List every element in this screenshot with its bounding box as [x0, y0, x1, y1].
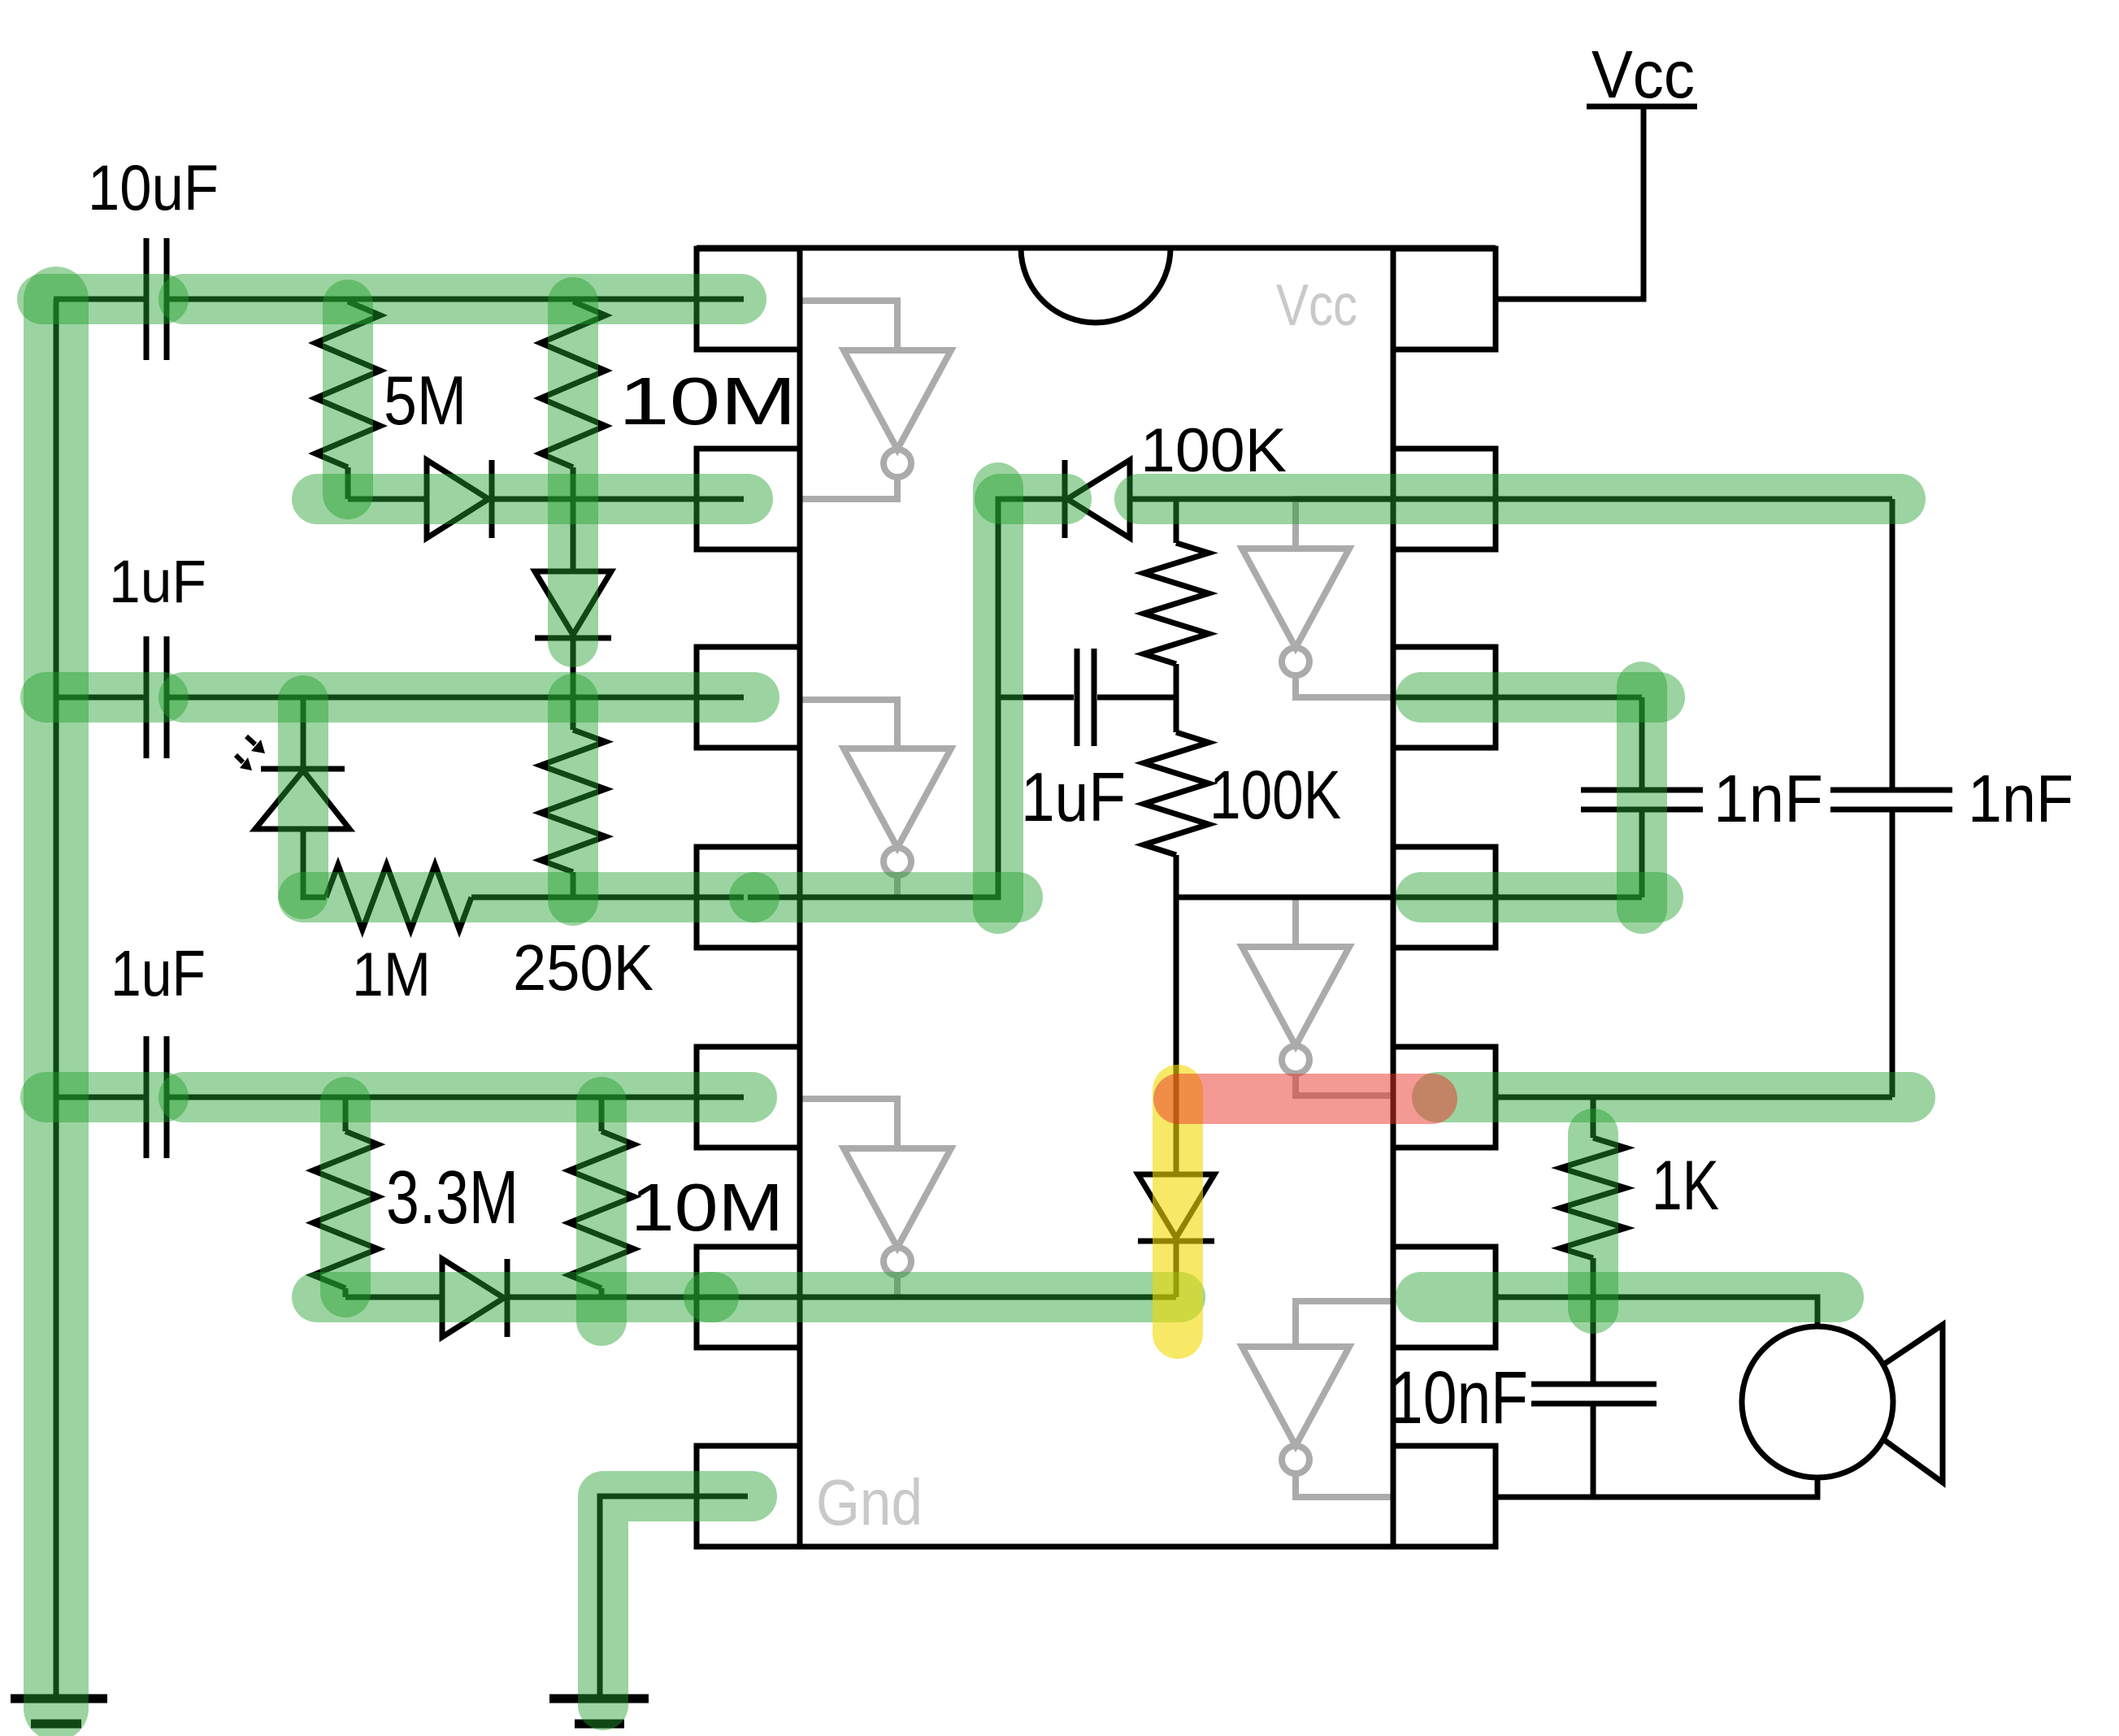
inverter U1A output wire	[800, 477, 897, 499]
wire R7 bottom lead	[1174, 664, 1179, 697]
pin 7 box	[697, 1446, 800, 1547]
wire C7 top lead	[1591, 1297, 1596, 1384]
wire C5 top lead	[1639, 697, 1645, 790]
pin 11 box	[1393, 847, 1496, 948]
highlight green pin13 row long	[1140, 474, 1900, 524]
svg-text:100K: 100K	[1209, 757, 1341, 833]
highlight green 250K	[548, 699, 598, 901]
wire D2 bottom lead	[571, 638, 576, 697]
resistor R2 10M	[541, 302, 606, 467]
capacitor C3 1uF plates	[146, 1036, 167, 1158]
highlight green pin6 row left	[317, 1272, 714, 1322]
svg-text:Gnd: Gnd	[816, 1466, 923, 1539]
speaker SP1	[1742, 1325, 1943, 1482]
wire Vcc pin14	[1496, 106, 1644, 299]
pin 12 box	[1393, 647, 1496, 748]
photodiode LED1	[255, 769, 350, 829]
svg-text:1uF: 1uF	[1021, 759, 1126, 836]
highlight red U1D output	[1179, 1074, 1432, 1124]
inverter U1A	[844, 350, 951, 477]
photodiode LED1 light arrows	[236, 736, 255, 762]
wire R5 bottom lead	[343, 1288, 349, 1297]
ground GND2	[549, 1699, 649, 1724]
pin 5 box	[697, 1047, 800, 1148]
highlight green R1	[323, 305, 373, 494]
pin 4 box	[697, 847, 800, 948]
svg-text:Vcc: Vcc	[1276, 273, 1357, 338]
highlight green D4 stub	[1000, 474, 1066, 524]
inverter U1B	[1242, 549, 1349, 675]
svg-text:10uF: 10uF	[88, 151, 219, 224]
wire C6 top lead	[1890, 499, 1895, 790]
wire R5 top lead	[343, 1097, 349, 1131]
wire D2 top lead	[571, 499, 576, 571]
highlight green pin12 row	[1421, 672, 1660, 723]
resistor R9 1K	[1561, 1138, 1626, 1258]
diode D2	[535, 571, 611, 638]
highlight green R9	[1568, 1134, 1618, 1309]
IC U1 body	[800, 248, 1393, 1547]
wire pin10 row	[1496, 1095, 1892, 1100]
highlight green pin10 row	[1437, 1072, 1910, 1122]
highlight yellow D5	[1153, 1090, 1203, 1334]
pin 9 box	[1393, 1247, 1496, 1348]
diode D3	[442, 1259, 507, 1337]
svg-text:10nF: 10nF	[1389, 1356, 1528, 1439]
wire D5 top lead	[1174, 897, 1179, 1174]
highlight green pin1 wire right	[184, 274, 741, 324]
wire R8 bottom lead	[1174, 855, 1179, 897]
wire C7 bottom lead	[1591, 1404, 1596, 1497]
highlight green pin5 wire left	[46, 1072, 163, 1122]
wire C4 row	[997, 695, 1176, 701]
svg-text:1nF: 1nF	[1968, 761, 2073, 836]
wire C5 bottom to pin11	[1639, 809, 1645, 897]
inverter U1F	[1242, 1347, 1349, 1473]
inverter U1D output wire	[1296, 1074, 1393, 1096]
wire D5 bottom lead	[1174, 1241, 1179, 1297]
resistor R1 5M	[315, 302, 380, 467]
highlight green pin3 wire left	[46, 672, 163, 723]
capacitor C6 1nF plates	[1830, 790, 1952, 809]
resistor R3 1M	[326, 865, 471, 930]
IC U1 notch	[1021, 248, 1170, 323]
wire pin5 row left	[56, 1095, 744, 1100]
wire R9 bottom lead	[1591, 1258, 1596, 1297]
wire R6 bottom lead	[599, 1288, 605, 1297]
diode D4	[1065, 460, 1130, 538]
inverter U1B output wire	[1296, 675, 1393, 697]
highlight green pin5 wire right	[184, 1072, 752, 1122]
highlight green pin4 row	[754, 872, 1018, 922]
inverter U1C input wire	[800, 700, 897, 749]
highlight green pin3 wire right	[184, 672, 754, 723]
svg-text:1uF: 1uF	[109, 548, 206, 615]
inverter U1E output wire	[894, 1275, 901, 1297]
resistor R5 3.3M	[313, 1131, 378, 1288]
inverter U1E	[844, 1148, 951, 1275]
svg-text:1K: 1K	[1652, 1147, 1719, 1225]
inverter U1A input wire	[800, 301, 897, 350]
wire R6 top lead	[599, 1097, 605, 1131]
svg-text:1uF: 1uF	[111, 937, 206, 1009]
resistor R7 100K	[1144, 543, 1209, 664]
wire left rail	[54, 299, 59, 1695]
highlight green LED	[278, 701, 328, 894]
wire R4 top lead	[571, 697, 576, 730]
wire speaker bottom	[1496, 1478, 1817, 1497]
resistor R6 10M	[569, 1131, 634, 1288]
wire pin2 row left	[348, 497, 744, 502]
highlight green pin11 row	[1421, 872, 1658, 922]
wire pin4 to diode D4	[748, 499, 1065, 897]
wire R7 top lead	[1174, 499, 1179, 543]
svg-text:1M: 1M	[352, 940, 431, 1009]
pin 14 box	[1393, 249, 1496, 349]
inverter U1E input wire	[800, 1099, 897, 1148]
pin 2 box	[697, 449, 800, 549]
wire LED top lead	[301, 697, 306, 767]
highlight green left rail	[24, 299, 89, 1708]
highlight green pin6 row to D5	[709, 1272, 1180, 1322]
wire R1 bottom lead	[345, 467, 351, 499]
inverter U1D	[1242, 947, 1349, 1074]
ground GND1	[11, 1699, 107, 1724]
highlight green R5	[320, 1102, 371, 1292]
diode D5	[1138, 1174, 1214, 1241]
capacitor C1 10uF plates	[146, 238, 167, 360]
capacitor C2 1uF plates	[146, 636, 167, 758]
inverter U1B input wire	[1296, 499, 1393, 549]
wire pin1 row left	[54, 297, 744, 302]
IC bottom edge extensions	[697, 1544, 1496, 1550]
wire R8 top lead	[1174, 697, 1179, 732]
pin 6 box	[697, 1247, 800, 1348]
pin 3 box	[697, 647, 800, 748]
wire pin3 row left	[56, 695, 744, 701]
svg-text:Vcc: Vcc	[1591, 37, 1695, 112]
inverter U1C output wire	[894, 875, 901, 897]
wire pin4 row left	[471, 895, 744, 901]
resistor R4 250K	[541, 730, 606, 872]
pin 10 box	[1393, 1047, 1496, 1148]
highlight green R2 and D2	[548, 302, 598, 642]
inverter U1F output wire	[1296, 1473, 1393, 1497]
wire LED bottom lead	[303, 829, 326, 897]
diode D1	[427, 460, 492, 538]
pin 13 box	[1393, 449, 1496, 549]
pin 8 box	[1393, 1446, 1496, 1547]
capacitor C5 1nF plates	[1581, 790, 1703, 809]
wire C6 bottom lead	[1890, 809, 1895, 1097]
highlight green riser to D4	[973, 488, 1023, 909]
wire R2 bottom lead	[571, 467, 576, 499]
wire pin6 row	[345, 1295, 1176, 1300]
wire pin7 gnd path	[600, 1496, 748, 1695]
svg-text:10M: 10M	[619, 363, 797, 439]
highlight green C5 riser	[1617, 687, 1667, 909]
inverter U1C	[844, 749, 951, 875]
wire pin12 row	[1393, 695, 1642, 701]
svg-text:5M: 5M	[384, 362, 467, 440]
wire pin9 row	[1496, 1297, 1817, 1326]
svg-text:3.3M: 3.3M	[386, 1155, 519, 1239]
highlight green pin1 wire left	[42, 274, 163, 324]
capacitor C7 10nF plates	[1531, 1384, 1657, 1404]
highlight green gnd path	[603, 1496, 752, 1705]
capacitor C4 1uF plates	[1077, 649, 1094, 746]
resistor R8 100K	[1144, 732, 1209, 855]
svg-text:10M: 10M	[631, 1170, 784, 1245]
Vcc underline	[1587, 104, 1697, 110]
svg-text:250K: 250K	[513, 931, 654, 1004]
wire R9 top lead	[1591, 1097, 1596, 1138]
svg-text:1nF: 1nF	[1713, 761, 1823, 836]
highlight green R6	[576, 1102, 627, 1321]
highlight green pin2 row left	[317, 474, 748, 524]
wire pin2 row right long	[1130, 497, 1892, 502]
wire pin4 row right	[1176, 895, 1642, 901]
inverter U1D input wire	[1292, 897, 1299, 947]
wire R4 bottom lead	[571, 872, 576, 897]
inverter U1F input wire	[1296, 1301, 1393, 1347]
highlight green 1M row	[303, 872, 754, 922]
IC top edge extensions	[697, 245, 1496, 251]
pin 1 box	[697, 249, 800, 349]
highlight green pin9 row	[1421, 1272, 1839, 1322]
